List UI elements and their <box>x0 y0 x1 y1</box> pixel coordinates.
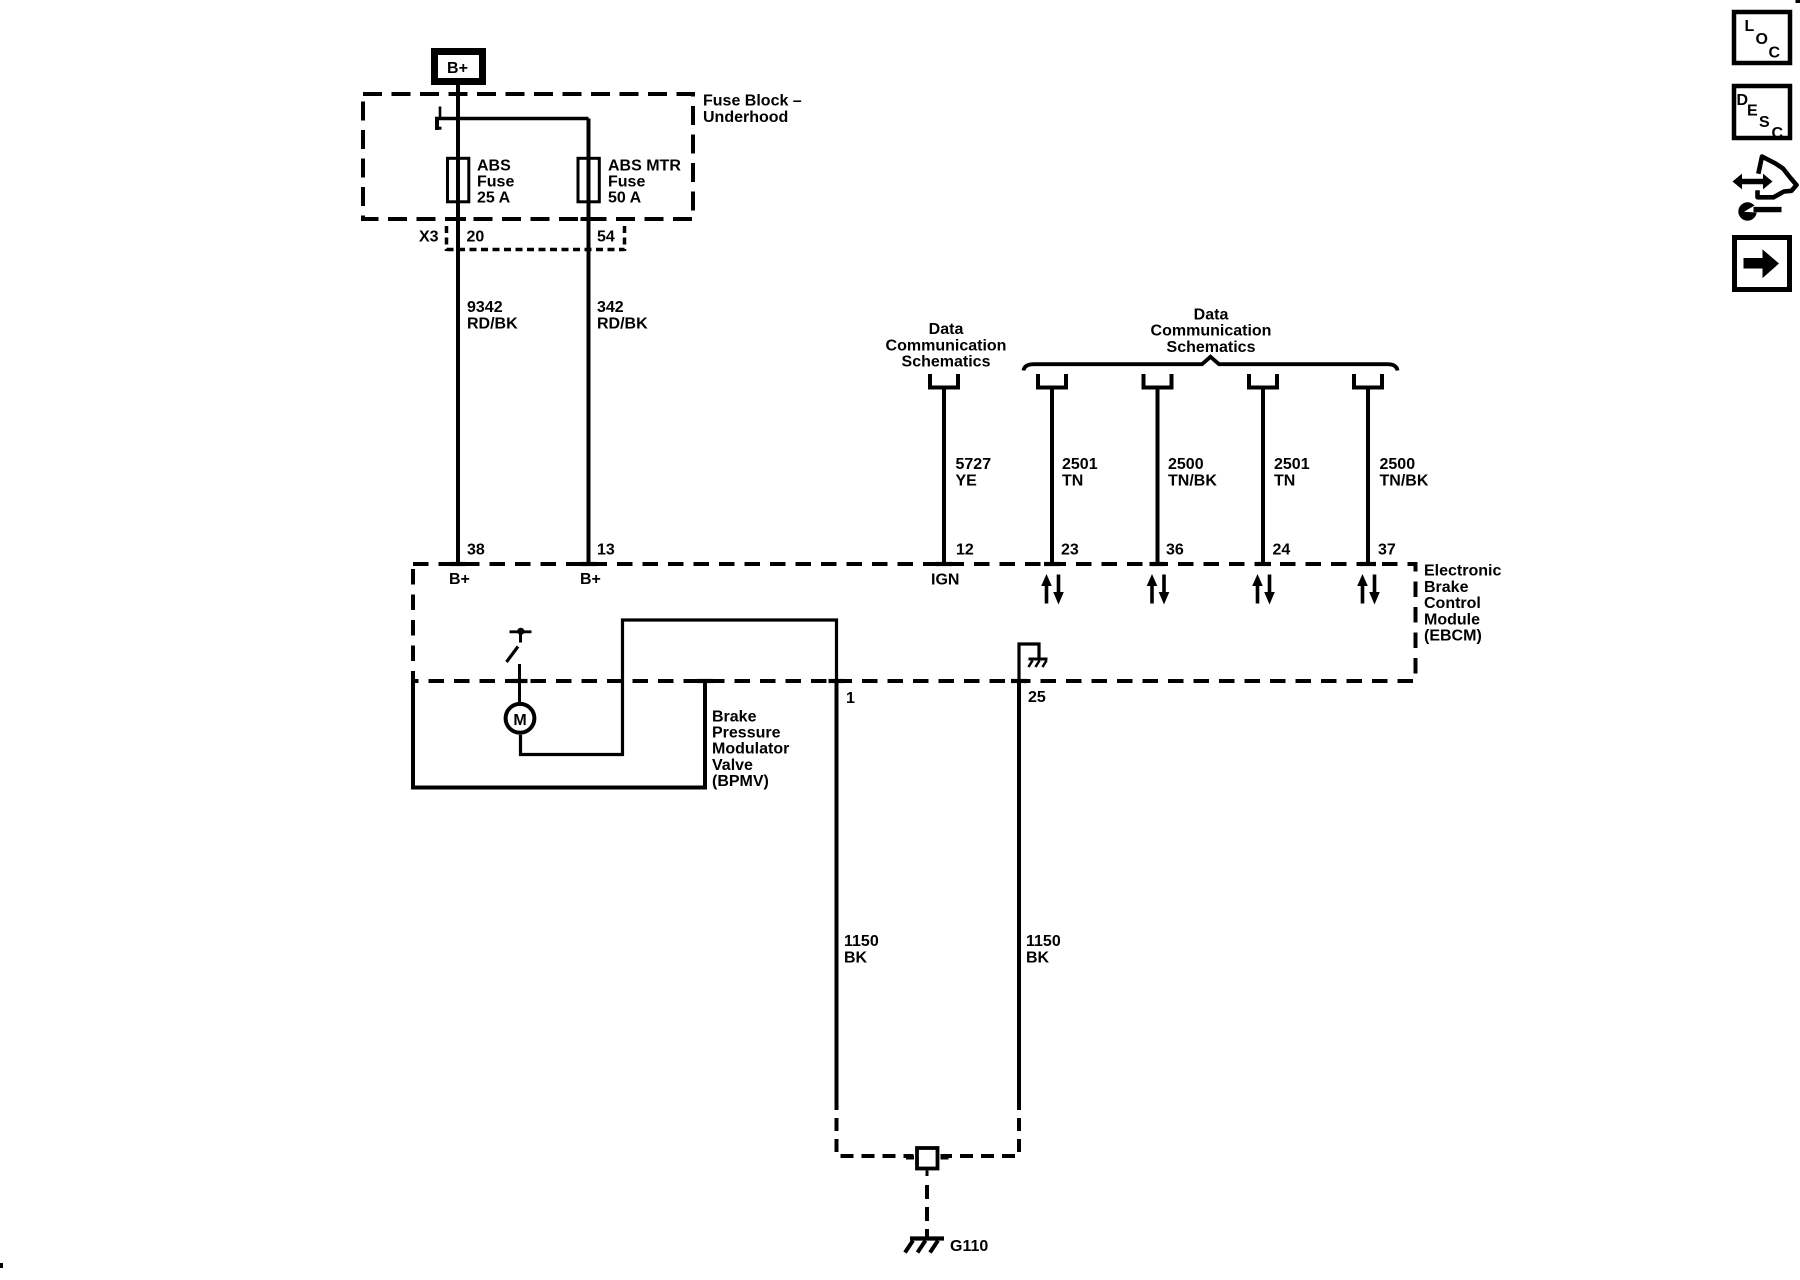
svg-text:54: 54 <box>597 229 615 246</box>
svg-text:Electronic: Electronic <box>1424 563 1501 580</box>
svg-text:25: 25 <box>1028 689 1046 706</box>
Brake Pressure Modulator Valve outline <box>413 681 705 788</box>
wire from B+ to pin 38 (circuit 9342) <box>456 85 460 566</box>
svg-text:S: S <box>1759 114 1770 131</box>
off-page connector symbol wire 2500 b <box>1354 374 1382 388</box>
wire label 342 RD/BK <box>597 299 648 332</box>
svg-text:Pressure: Pressure <box>712 724 781 741</box>
svg-text:TN: TN <box>1274 472 1295 489</box>
wire 2500 TN/BK to pin 36 <box>1156 390 1160 567</box>
svg-text:5727: 5727 <box>956 456 992 473</box>
svg-text:B+: B+ <box>580 571 601 588</box>
fusible link symbol <box>436 107 442 131</box>
svg-text:BK: BK <box>844 949 868 966</box>
svg-text:2501: 2501 <box>1274 456 1310 473</box>
junction dashes at EBCM pins <box>450 564 1376 681</box>
svg-text:Data: Data <box>929 321 964 338</box>
brace over data wires <box>1024 357 1398 371</box>
svg-text:Schematics: Schematics <box>1167 339 1256 356</box>
icon forward arrow box <box>1735 238 1790 290</box>
node Data Communication Schematics (serial data) <box>1151 306 1272 356</box>
icon LOC box <box>1734 12 1790 63</box>
svg-text:YE: YE <box>956 472 978 489</box>
svg-text:Brake: Brake <box>712 708 757 725</box>
wire label 2500 TN/BK a <box>1168 456 1217 489</box>
svg-text:TN: TN <box>1062 472 1083 489</box>
svg-text:C: C <box>1769 45 1781 62</box>
svg-text:Data: Data <box>1194 306 1229 323</box>
connector X3 dotted outline <box>447 226 625 251</box>
bidirectional arrows pin 37 <box>1357 574 1380 605</box>
svg-text:(EBCM): (EBCM) <box>1424 628 1482 645</box>
svg-text:ABS: ABS <box>477 157 511 174</box>
svg-text:1150: 1150 <box>1026 933 1061 950</box>
wire 5727 YE to pin 12 <box>942 390 946 567</box>
label Fuse Block - Underhood <box>703 93 802 126</box>
svg-text:RD/BK: RD/BK <box>597 315 648 332</box>
Fuse Block - Underhood dashed box <box>363 94 693 219</box>
fuse ABS 25 A <box>448 158 469 202</box>
svg-text:X3: X3 <box>419 229 439 246</box>
wire 1150 BK from pin 1 <box>835 679 839 1097</box>
svg-text:20: 20 <box>467 229 485 246</box>
svg-text:Communication: Communication <box>886 337 1007 354</box>
svg-text:B+: B+ <box>449 571 470 588</box>
svg-text:Module: Module <box>1424 611 1480 628</box>
svg-text:L: L <box>1745 18 1755 35</box>
svg-text:342: 342 <box>597 299 624 316</box>
svg-text:1150: 1150 <box>844 933 879 950</box>
svg-text:9342: 9342 <box>467 299 503 316</box>
wire label 2501 TN a <box>1062 456 1098 489</box>
splice S110 <box>906 1148 949 1176</box>
svg-text:36: 36 <box>1166 542 1184 559</box>
fuse ABS MTR 50 A <box>578 158 599 202</box>
svg-text:23: 23 <box>1061 542 1079 559</box>
value label ABS Fuse 25 A <box>477 157 514 206</box>
svg-text:IGN: IGN <box>931 572 959 589</box>
svg-text:Control: Control <box>1424 595 1481 612</box>
svg-text:Brake: Brake <box>1424 579 1469 596</box>
svg-text:O: O <box>1756 31 1768 48</box>
dashed wire to splice right <box>941 1097 1020 1156</box>
wire 2500 TN/BK to pin 37 <box>1366 390 1370 567</box>
svg-text:38: 38 <box>467 542 485 559</box>
dashed wire splice to ground <box>925 1185 929 1238</box>
svg-text:TN/BK: TN/BK <box>1168 472 1217 489</box>
svg-text:Fuse Block –: Fuse Block – <box>703 93 802 110</box>
svg-text:2501: 2501 <box>1062 456 1098 473</box>
svg-text:ABS MTR: ABS MTR <box>608 157 681 174</box>
svg-text:C: C <box>1772 125 1784 142</box>
page corner mark top right <box>1796 0 1800 3</box>
icon electrical diagnostics (arrow and wrench) <box>1733 157 1797 221</box>
svg-text:Communication: Communication <box>1151 323 1272 340</box>
svg-text:M: M <box>513 712 526 729</box>
svg-text:Schematics: Schematics <box>902 354 991 371</box>
off-page connector symbol wire 2500 a <box>1144 374 1172 388</box>
wire label 9342 RD/BK <box>467 299 518 332</box>
label Electronic Brake Control Module (EBCM) <box>1424 563 1501 645</box>
svg-text:Fuse: Fuse <box>608 173 645 190</box>
svg-text:G110: G110 <box>950 1238 988 1255</box>
svg-text:(BPMV): (BPMV) <box>712 773 769 790</box>
svg-text:2500: 2500 <box>1168 456 1204 473</box>
bidirectional arrows pin 23 <box>1041 574 1064 605</box>
svg-text:1: 1 <box>846 690 855 707</box>
wire from motor to pin 1 <box>521 620 837 755</box>
off-page connector symbol wire 5727 <box>930 374 958 388</box>
svg-text:Fuse: Fuse <box>477 173 514 190</box>
wire from branch to pin 13 (circuit 342) <box>587 119 591 567</box>
svg-text:Underhood: Underhood <box>703 109 788 126</box>
page corner mark bottom left <box>0 1263 3 1268</box>
svg-text:TN/BK: TN/BK <box>1380 472 1429 489</box>
Electronic Brake Control Module dashed box <box>413 564 1416 681</box>
off-page connector symbol wire 2501 b <box>1249 374 1277 388</box>
wire branch to ABS MTR fuse <box>435 117 589 121</box>
svg-text:Valve: Valve <box>712 757 753 774</box>
off-page connector symbol wire 2501 a <box>1038 374 1066 388</box>
bidirectional arrows pin 24 <box>1252 574 1275 605</box>
node Data Communication Schematics (IGN feed) <box>886 321 1007 371</box>
wire 1150 BK from pin 25 <box>1017 679 1021 1097</box>
internal ground connection EBCM <box>1019 644 1048 681</box>
wire label 2500 TN/BK b <box>1380 456 1429 489</box>
wire label 1150 BK right <box>1026 933 1061 966</box>
wire label 2501 TN b <box>1274 456 1310 489</box>
motor M (ABS pump) <box>506 704 535 733</box>
label Brake Pressure Modulator Valve (BPMV) <box>712 708 789 790</box>
junction dashes at fuse block pins <box>450 217 597 221</box>
svg-text:Modulator: Modulator <box>712 741 789 758</box>
svg-text:13: 13 <box>597 542 615 559</box>
svg-text:2500: 2500 <box>1380 456 1416 473</box>
switch (pump motor relay contact) <box>507 628 532 703</box>
svg-text:24: 24 <box>1273 542 1291 559</box>
svg-text:25 A: 25 A <box>477 190 511 207</box>
svg-text:12: 12 <box>956 542 974 559</box>
svg-text:E: E <box>1747 103 1758 120</box>
svg-text:BK: BK <box>1026 949 1050 966</box>
svg-text:37: 37 <box>1378 542 1396 559</box>
svg-text:RD/BK: RD/BK <box>467 315 518 332</box>
bidirectional arrows pin 36 <box>1147 574 1170 605</box>
ground G110 <box>905 1238 988 1255</box>
wire label 5727 YE <box>956 456 992 489</box>
power node B+ <box>435 52 483 82</box>
svg-text:50 A: 50 A <box>608 190 642 207</box>
value label ABS MTR Fuse 50 A <box>608 157 681 206</box>
icon DESC box <box>1734 86 1790 142</box>
dashed wire to splice left <box>837 1097 914 1156</box>
svg-text:B+: B+ <box>447 60 468 77</box>
wire 2501 TN to pin 24 <box>1261 390 1265 567</box>
wire label 1150 BK left <box>844 933 879 966</box>
wire 2501 TN to pin 23 <box>1050 390 1054 567</box>
